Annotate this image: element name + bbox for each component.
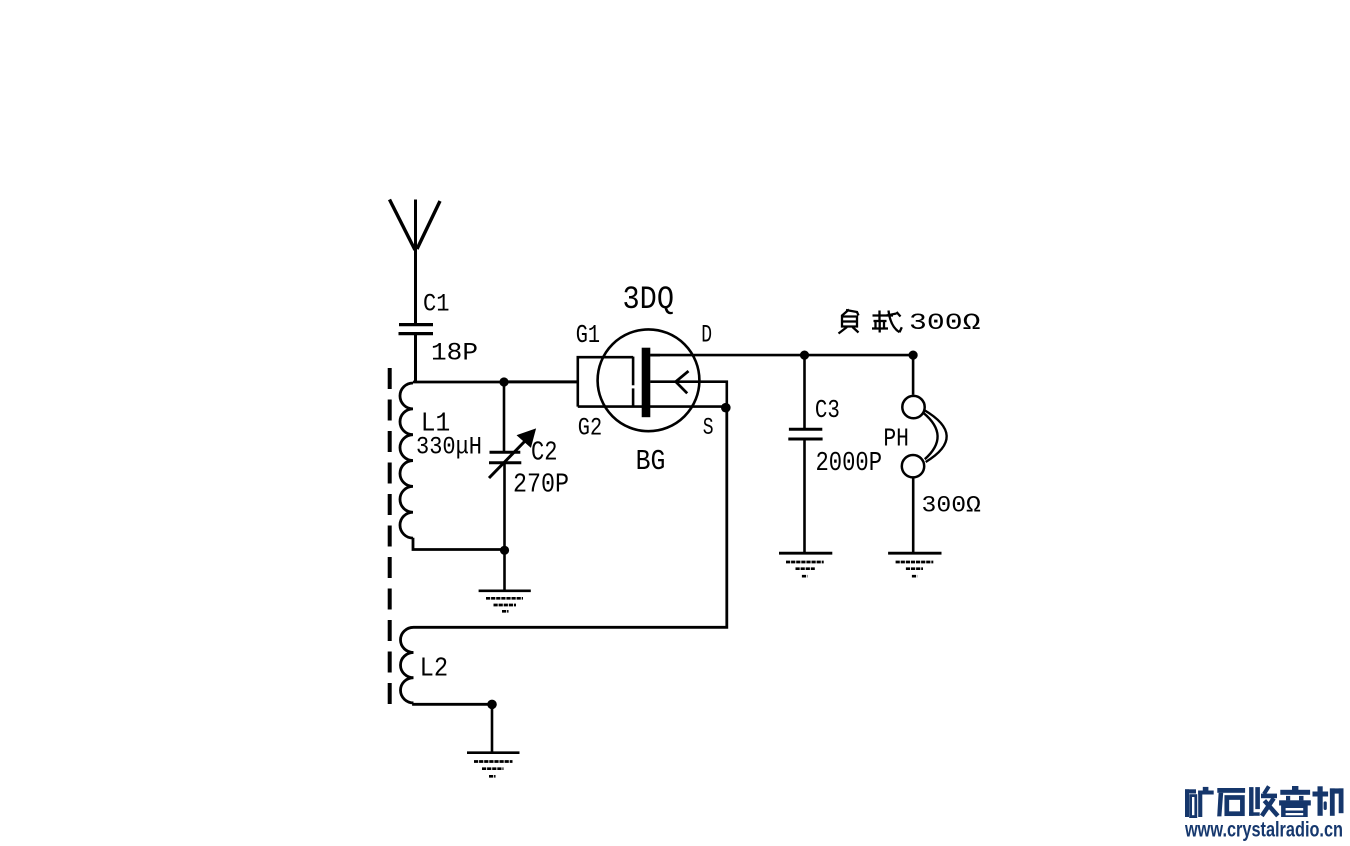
wire drain top rail bbox=[650, 354, 913, 357]
glyph fu bbox=[842, 310, 850, 317]
ground (tank) bbox=[479, 591, 531, 612]
svg-text:G1: G1 bbox=[576, 320, 600, 350]
svg-text:270P: 270P bbox=[513, 471, 569, 501]
capacitor C1 bbox=[399, 325, 434, 382]
glyph shou bbox=[1249, 786, 1278, 816]
capacitor C3 bbox=[788, 355, 822, 553]
svg-text:330μH: 330μH bbox=[416, 433, 482, 462]
wire L2 bottom bbox=[414, 703, 493, 704]
svg-text:D: D bbox=[701, 320, 712, 349]
dashed line (coupling / shield) bbox=[388, 368, 392, 708]
inductor L2 bbox=[401, 627, 414, 703]
glyph shi bbox=[1217, 788, 1245, 816]
antenna bbox=[390, 200, 441, 324]
headphones PH bbox=[902, 355, 947, 552]
svg-text:C2: C2 bbox=[531, 439, 558, 469]
wire gate input bbox=[504, 380, 578, 383]
svg-text:C3: C3 bbox=[815, 395, 840, 425]
node junction PH top bbox=[909, 351, 918, 360]
node junction C3 top bbox=[800, 351, 809, 360]
svg-text:300Ω: 300Ω bbox=[909, 310, 981, 336]
svg-text:www.crystalradio.cn: www.crystalradio.cn bbox=[1184, 819, 1343, 842]
svg-text:PH: PH bbox=[883, 424, 909, 454]
svg-text:G2: G2 bbox=[578, 414, 602, 443]
ground (PH) bbox=[888, 553, 941, 576]
ground (C3) bbox=[779, 553, 832, 576]
transistor BG 3DQ dual-gate MOSFET bbox=[578, 329, 727, 431]
wire L1 bottom to C2 bottom bbox=[413, 538, 505, 550]
node junction L1/C2 bottom bbox=[500, 546, 509, 555]
wire L2 to ground bbox=[491, 704, 494, 752]
wire source down and to L2 bbox=[414, 408, 727, 628]
logo kuangshi shouyinji (crystalradio) bbox=[1185, 786, 1344, 817]
node junction S bbox=[721, 403, 731, 413]
svg-text:S: S bbox=[703, 415, 714, 442]
svg-text:2000P: 2000P bbox=[816, 449, 883, 479]
variable capacitor C2 bbox=[489, 382, 535, 551]
label load 300ohm (fu zai = load) bbox=[839, 310, 902, 334]
svg-text:3DQ: 3DQ bbox=[623, 281, 675, 318]
node junction L2 bottom bbox=[487, 700, 497, 710]
wire tank top rail bbox=[413, 381, 578, 384]
node junction antenna/C2/gate bbox=[499, 377, 508, 386]
wire C2 bottom to ground bbox=[503, 550, 506, 590]
glyph zai bbox=[873, 314, 894, 316]
inductor L1 bbox=[400, 383, 413, 538]
glyph yin bbox=[1279, 786, 1311, 817]
svg-text:18P: 18P bbox=[431, 339, 478, 368]
svg-text:BG: BG bbox=[636, 445, 666, 478]
glyph kuang bbox=[1185, 787, 1214, 817]
svg-text:C1: C1 bbox=[423, 290, 450, 319]
svg-text:L2: L2 bbox=[420, 654, 449, 684]
svg-text:300Ω: 300Ω bbox=[922, 493, 981, 520]
ground (L2) bbox=[467, 753, 520, 777]
glyph ji bbox=[1313, 786, 1344, 816]
